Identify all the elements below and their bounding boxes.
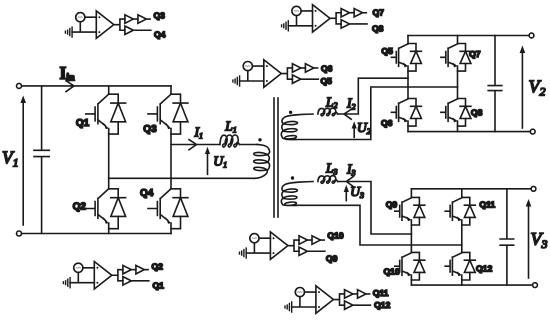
svg-text:Q9: Q9 [326, 254, 338, 264]
svg-text:Q3: Q3 [143, 124, 157, 135]
svg-text:Q12: Q12 [374, 300, 390, 310]
wire leg Q7-Q8 [457, 36, 459, 132]
svg-text:V3: V3 [531, 229, 548, 251]
transistor Q1 [86, 94, 126, 134]
svg-text:I3: I3 [346, 162, 356, 178]
polarity dot winding 1 [258, 138, 261, 141]
transistor Q11 [445, 197, 475, 225]
svg-text:Q5: Q5 [321, 76, 333, 86]
transistor Q5 [391, 44, 421, 72]
svg-text:Q5: Q5 [381, 46, 393, 56]
svg-text:V1: V1 [2, 148, 18, 170]
driver block D6 (Q11/Q12) [285, 286, 370, 314]
transistor Q2 [86, 189, 126, 229]
svg-text:Q7: Q7 [469, 49, 481, 59]
svg-text:Q10: Q10 [384, 267, 400, 277]
driver block D2 (Q2/Q1) [63, 262, 148, 290]
svg-text:Q8: Q8 [471, 107, 483, 117]
svg-text:Q9: Q9 [386, 200, 398, 210]
svg-text:V2: V2 [529, 77, 546, 99]
current arrow Iin [66, 81, 74, 92]
wire winding2 top through L2 [338, 78, 408, 114]
terminal port2 bottom [530, 129, 535, 134]
driver block D4 (Q6/Q5) [233, 60, 318, 88]
svg-text:I2: I2 [346, 96, 356, 112]
svg-text:I1: I1 [194, 124, 204, 140]
svg-text:Q6: Q6 [321, 64, 333, 74]
svg-text:U2: U2 [357, 120, 371, 136]
transistor Q8 [441, 99, 471, 127]
transistor Q7 [441, 44, 471, 72]
transistor Q3 [148, 94, 188, 134]
svg-text:Q10: Q10 [327, 231, 343, 241]
capacitor C2 [488, 36, 502, 132]
driver block D1 (Q3/Q4) [65, 11, 150, 39]
wire leg Q9-Q10 [410, 189, 412, 285]
terminal port2 top [529, 33, 534, 38]
svg-text:Q4: Q4 [154, 29, 166, 39]
svg-text:Q2: Q2 [152, 262, 164, 272]
svg-text:U1: U1 [213, 154, 227, 170]
svg-text:Q7: Q7 [373, 8, 385, 18]
capacitor C3 [500, 189, 514, 285]
svg-text:U3: U3 [350, 184, 364, 200]
wire leg Q5-Q6 [407, 36, 409, 132]
wire bottom rail port2 [408, 131, 530, 133]
terminal top-left [17, 83, 22, 88]
driver block D3 (Q7/Q8) [282, 5, 367, 32]
transistor Q4 [148, 189, 188, 229]
polarity dot winding 3 [291, 176, 294, 179]
terminal port3 bottom [533, 283, 538, 288]
svg-text:Q1: Q1 [76, 118, 90, 129]
terminal bottom-left [17, 231, 22, 236]
svg-text:Q2: Q2 [73, 202, 87, 213]
svg-text:Q12: Q12 [476, 264, 492, 274]
wire I1 from leg Q3-Q4 midpoint [171, 144, 219, 146]
wire leg Q1-Q2 [108, 86, 110, 234]
voltage arrow U1 [207, 151, 209, 174]
capacitor C1 [34, 86, 49, 234]
svg-text:L3: L3 [325, 160, 338, 176]
voltage arrow V1 [22, 99, 24, 225]
wire leg Q3-Q4 [170, 86, 172, 234]
winding 2 [281, 114, 313, 140]
transistor Q9 [395, 197, 425, 225]
current arrow I2 [344, 110, 351, 120]
svg-text:Q11: Q11 [373, 288, 389, 298]
core line left [273, 98, 275, 217]
wire top rail port2 [408, 35, 529, 37]
wire top rail port1 [22, 85, 172, 87]
wire L1 to winding 1 [240, 144, 259, 146]
winding 1 (primary) [254, 145, 270, 179]
wire top rail port3 [411, 188, 531, 190]
voltage arrow V2 [521, 49, 523, 128]
transistor Q10 [395, 252, 425, 280]
driver block D5 (Q10/Q9) [240, 232, 325, 260]
polarity dot winding 2 [289, 111, 292, 114]
wire leg Q11-Q12 [461, 189, 463, 285]
wire bottom rail port3 [411, 284, 532, 286]
terminal port3 top [531, 186, 536, 191]
svg-text:Iin: Iin [60, 63, 76, 84]
current arrow I1 [189, 140, 197, 150]
wire winding2 bottom [294, 87, 458, 140]
svg-text:L2: L2 [325, 94, 338, 110]
winding 3 [281, 182, 313, 206]
voltage arrow V3 [528, 203, 530, 279]
svg-text:L1: L1 [224, 118, 237, 134]
wire winding1 return to leg Q1-Q2 midpoint [109, 177, 255, 179]
svg-text:Q1: Q1 [153, 281, 165, 291]
svg-text:Q4: Q4 [140, 188, 154, 199]
wire winding3 bottom [294, 205, 462, 245]
svg-text:Q3: Q3 [154, 11, 166, 21]
transistor Q12 [445, 252, 475, 280]
svg-text:Q6: Q6 [381, 118, 393, 128]
current arrow I3 [346, 176, 354, 187]
wire winding3 top through L3 [338, 182, 412, 235]
inductor L1 [220, 135, 240, 147]
core line right [277, 98, 279, 217]
inductor L2 [318, 108, 338, 116]
transistor Q6 [391, 99, 421, 127]
inductor L3 [318, 176, 338, 184]
voltage arrow U2 [353, 126, 355, 138]
svg-text:Q11: Q11 [479, 200, 495, 210]
wire bottom rail port1 [22, 233, 172, 235]
svg-text:Q8: Q8 [372, 24, 384, 34]
voltage arrow U3 [345, 189, 347, 201]
